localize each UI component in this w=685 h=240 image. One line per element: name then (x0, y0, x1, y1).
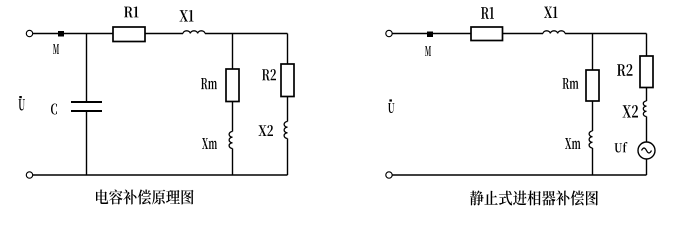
wire (right Rm branch, top wire down to Rm) (592, 34, 594, 71)
label X2 (left) (259, 125, 274, 136)
label R2 (right) (617, 64, 633, 76)
wire (right Uf to bottom wire) (646, 159, 648, 175)
wire (left Rm to Xm) (232, 102, 234, 132)
sine wave inside Uf source (642, 148, 652, 153)
inductor X2 (left) (284, 122, 287, 139)
wire (left X2 to bottom wire) (287, 139, 289, 176)
wire (right X2 to Uf source) (646, 117, 648, 143)
label X1 (left) (180, 10, 194, 22)
wire (left top: R1 to X1) (145, 33, 183, 35)
wire (left Rm branch, top wire to Rm) (232, 34, 234, 70)
label U-dot source voltage (left) (19, 99, 26, 111)
resistor R1 (right) (471, 27, 503, 41)
label X2 (right) (623, 105, 639, 118)
capacitor C (left) (71, 102, 102, 111)
resistor R1 (left) (113, 27, 145, 42)
wire (right bottom rail) (393, 174, 647, 176)
wire (left top: terminal to R1) (33, 33, 113, 35)
label U-dot source voltage (right) (388, 103, 395, 113)
wire (right top: R1 to X1) (503, 33, 544, 35)
caption: 电容补偿原理图 (96, 190, 194, 205)
resistor Rm (right) (586, 70, 599, 101)
terminal (right circuit, top input) (386, 30, 392, 36)
label Rm (right) (563, 78, 579, 89)
label R1 (left) (124, 7, 139, 18)
label R2 (left) (262, 69, 276, 81)
resistor R2 (left) (281, 64, 294, 97)
wire (right R2 to X2) (646, 88, 648, 102)
wire (left bottom rail) (33, 174, 288, 176)
resistor R2 (right) (640, 56, 653, 88)
label R1 (right) (481, 7, 494, 19)
wire (left R2 to X2) (287, 97, 289, 122)
wire (left top: X1 to top-right corner) (205, 33, 288, 35)
label Xm (right) (565, 138, 581, 149)
resistor Rm (left) (226, 69, 239, 102)
wire (left Xm to bottom wire) (232, 149, 234, 176)
wire (right Xm to bottom wire) (592, 148, 594, 175)
terminal (left circuit, bottom input) (26, 172, 32, 178)
dot above U (left) (19, 96, 22, 98)
label X1 (right) (544, 7, 558, 19)
terminal (right circuit, bottom input) (386, 172, 392, 178)
inductor X2 (right) (643, 101, 646, 116)
caption: 静止式进相器补偿图 (470, 191, 598, 206)
node M junction dot (right) (427, 32, 433, 38)
label Xm (left) (202, 138, 217, 149)
label M (left) (53, 44, 59, 54)
inductor Xm (left) (229, 132, 232, 149)
inductor X1 (right) (543, 31, 565, 34)
label C (left) (51, 104, 57, 115)
wire (right Rm to Xm) (592, 101, 594, 131)
wire (right top: X1 to top-right corner) (565, 33, 647, 35)
terminal (left circuit, top input) (26, 30, 32, 36)
label M (right) (425, 46, 431, 56)
label Rm (left) (201, 78, 217, 89)
wire (left capacitor branch, lower) (86, 112, 88, 175)
wire (left capacitor branch, upper) (86, 34, 88, 102)
inductor X1 (left) (183, 31, 205, 34)
inductor Xm (right) (589, 131, 592, 148)
wire (right R2 branch, corner down to R2) (646, 34, 648, 57)
dot above U (right) (389, 99, 392, 101)
node M junction dot (left) (58, 31, 64, 37)
wire (left R2 branch, top corner down to R2) (287, 34, 289, 65)
label Uf (right) (615, 142, 628, 153)
AC source Uf (right) (638, 142, 655, 159)
wire (right top: terminal to R1) (393, 33, 472, 35)
